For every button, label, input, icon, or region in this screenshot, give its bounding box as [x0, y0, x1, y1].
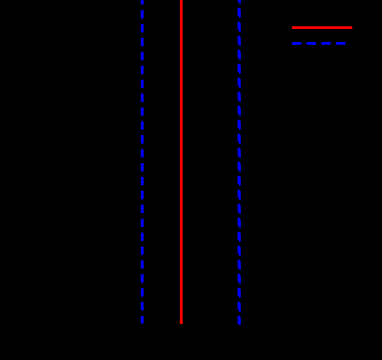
- blue dashed vertical line right (pair line B, slightly offset): [239, 0, 241, 325]
- blue dashed vertical line right (pair line A): [238, 0, 241, 324]
- blue dashed vertical line left: [141, 0, 144, 324]
- red solid vertical line (median): [180, 0, 183, 324]
- legend red solid sample: [292, 26, 352, 29]
- legend blue dashed sample: [292, 42, 346, 45]
